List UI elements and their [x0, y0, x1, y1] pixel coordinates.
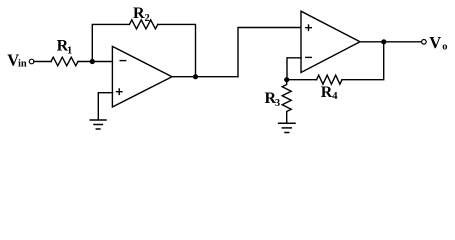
wire [92, 24, 129, 61]
wire [78, 61, 113, 63]
resistor R4 [317, 75, 342, 84]
resistor R3 [282, 80, 291, 123]
wire [172, 76, 238, 78]
svg-text:R: R [133, 5, 145, 22]
resistor R1 [51, 57, 78, 66]
wire [360, 41, 422, 43]
op-amp U1 minus sign [120, 60, 125, 62]
svg-text:4: 4 [332, 91, 338, 102]
op-amp U2 [301, 11, 360, 72]
node D junction dot [381, 39, 386, 44]
wire [34, 61, 51, 63]
node Vin terminal [29, 59, 34, 64]
op-amp U1 [112, 46, 172, 107]
svg-text:2: 2 [145, 13, 150, 24]
node A junction dot [90, 59, 95, 64]
wire [158, 24, 196, 76]
svg-text:in: in [18, 59, 27, 70]
op-amp U2 minus sign [306, 56, 311, 58]
node B junction dot [193, 74, 198, 79]
wire [238, 28, 301, 77]
resistor R2 [129, 20, 157, 29]
svg-text:3: 3 [275, 98, 280, 109]
wire [287, 58, 301, 80]
ground [279, 122, 295, 124]
svg-text:1: 1 [67, 46, 72, 57]
ground [90, 119, 106, 121]
svg-text:o: o [442, 41, 447, 52]
wire [98, 93, 112, 120]
wire [287, 79, 317, 81]
node C junction dot [284, 77, 289, 82]
wire [342, 42, 384, 80]
op-amp U2 plus sign [306, 25, 312, 30]
node Vo terminal [422, 40, 427, 45]
svg-text:R: R [321, 84, 333, 101]
op-amp U1 plus sign [117, 89, 123, 94]
svg-text:V: V [429, 33, 441, 52]
